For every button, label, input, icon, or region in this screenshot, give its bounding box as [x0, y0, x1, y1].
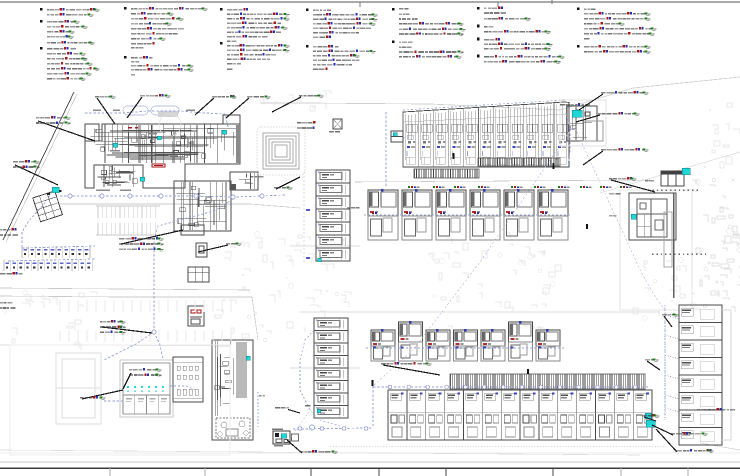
DB terrace east end: [646, 420, 655, 427]
general notes column 4: [306, 8, 378, 70]
general notes column 2: [124, 7, 208, 76]
garage cells and DB dots: [123, 386, 170, 414]
spa feed dashed: [257, 392, 259, 427]
circuit run building A south: [60, 195, 285, 197]
label pool hall: [250, 176, 264, 178]
building A clubhouse outline: [85, 124, 99, 141]
existing landscape texture centre: [215, 232, 351, 343]
label building A roof 2: [127, 94, 171, 118]
label mid spine: [275, 407, 289, 409]
circuit risers apartment stack: [664, 305, 666, 420]
villa south unit 5: [481, 329, 505, 361]
circuit run west parking: [22, 192, 52, 248]
bollard marks: [372, 153, 588, 386]
small kiosk north of wing: [181, 225, 204, 235]
label building D feeder 1: [579, 91, 649, 110]
sheet bottom border: [0, 452, 740, 454]
label building A roof 4: [226, 96, 271, 119]
fence dots building C: [648, 190, 706, 256]
label west parking row: [0, 228, 18, 236]
spa building south: [212, 340, 253, 440]
landscape texture west: [3, 291, 97, 350]
label building C west 1: [609, 193, 621, 195]
parking mid rows faint: [60, 300, 231, 342]
DB in building A: [113, 143, 118, 147]
car port hatch west: [414, 169, 479, 178]
DB south terrace west (substation detail): [273, 431, 290, 444]
blue caption under building D: [560, 103, 590, 106]
long feeder east: [575, 128, 665, 418]
general notes column 5: [392, 8, 466, 59]
label garage 1: [80, 390, 123, 400]
label building D feeder 2: [576, 112, 640, 122]
general notes column 3: [220, 8, 290, 70]
circuit through villa south row: [366, 347, 564, 349]
west store building rotated: [33, 191, 63, 222]
general notes column 1: [40, 8, 100, 81]
villa south unit 7: [536, 329, 560, 361]
car port hatch east: [478, 158, 560, 166]
label building A roof 3: [195, 95, 237, 115]
villa south unit 1: [371, 329, 395, 361]
villa mid circuit tags: [372, 212, 547, 214]
meter kiosk west: [333, 119, 342, 129]
rowhouse block north outline: [403, 102, 569, 167]
terrace car port hatch: [450, 374, 645, 389]
store building with grid: [188, 267, 209, 282]
apartment stack units: [679, 308, 731, 442]
villa mid unit 5: [504, 189, 534, 240]
tennis courts faint: [56, 353, 101, 424]
DB east stack: [645, 413, 651, 419]
label store: [274, 177, 300, 190]
villa south unit 2: [399, 321, 423, 361]
villa mid unit 2: [402, 189, 432, 240]
site boundary west diagonal: [3, 92, 74, 240]
label stack south 2: [656, 429, 714, 453]
canopy bumps on dashed run: [123, 106, 148, 115]
strip S bottom DB: [317, 409, 321, 413]
road north of villa rows: [355, 180, 650, 182]
label stack east 2: [645, 359, 660, 371]
villa mid unit 3: [436, 189, 466, 240]
circuit along rowhouse north: [403, 100, 565, 110]
feed from DB to strip building: [289, 409, 311, 440]
label garage 2: [123, 368, 162, 389]
feeder to substation kiosk: [385, 112, 387, 186]
villa south unit 6: [509, 321, 533, 361]
terrace unit partitions: [388, 390, 652, 440]
label water feature: [272, 95, 324, 113]
node on south spine: [309, 425, 314, 430]
road circuit tags mid: [408, 186, 632, 188]
label annex east: [609, 177, 655, 192]
villa south unit 3: [426, 329, 450, 361]
building A wing south: [174, 181, 231, 231]
label stack east 1: [662, 314, 679, 328]
circuit riser centre: [154, 199, 233, 332]
villa mid unit 4: [470, 189, 500, 240]
centre strip building south: [314, 318, 348, 418]
site boundary north-east: [260, 77, 740, 110]
general notes column 7: [577, 7, 657, 54]
circuit strip building south: [300, 330, 340, 426]
label building A east: [297, 121, 316, 129]
label west lighting: [13, 160, 58, 185]
general notes column 6: [477, 7, 565, 64]
water feature concentric squares: [257, 127, 305, 175]
label building A roof 1: [95, 96, 116, 125]
building B pool hall: [230, 172, 258, 190]
label west boundary upper: [36, 116, 95, 141]
site boundary east diagonal: [600, 152, 740, 193]
villa mid unit 6: [538, 189, 568, 240]
circuit run south spine: [293, 428, 373, 429]
building D north-east with DB: [567, 106, 597, 141]
circuit garage block: [104, 400, 123, 402]
building A room partitions: [138, 125, 140, 163]
existing landscape texture east of centre: [428, 230, 561, 334]
label building C blue: [645, 180, 654, 182]
red annotation inside building A: [152, 164, 165, 167]
circuit run building A north: [85, 111, 228, 127]
label east boundary: [697, 408, 735, 411]
label east feeder: [583, 148, 649, 165]
label west car park stack: [119, 230, 183, 251]
terrace block south outline: [388, 390, 652, 440]
circuit through villa mid row: [364, 214, 570, 216]
parking west rows with circuit labels: [4, 246, 92, 271]
road kerb south of building A: [60, 204, 300, 208]
small cross building: [196, 243, 207, 257]
label stack south 1: [652, 425, 708, 436]
annex east with dark roof edge: [661, 171, 684, 186]
label stack east 3: [642, 414, 660, 421]
substation kiosk west of rowhouse: [391, 131, 403, 142]
label villa south row: [381, 362, 440, 375]
rowhouse north unit partitions: [403, 103, 569, 167]
building C east: [629, 193, 676, 240]
hall building with column grid: [173, 357, 203, 402]
plant room with red equipment: [188, 306, 204, 326]
label west parking south: [0, 272, 22, 275]
label building C west 2: [609, 215, 616, 217]
existing houses east boundary: [691, 178, 740, 313]
parking stalls south of building A: [96, 206, 160, 235]
villa mid unit 1: [368, 189, 398, 240]
road south-west: [0, 345, 230, 346]
garage block south-west: [120, 360, 173, 417]
label tennis stack: [100, 320, 152, 334]
centre strip building north: [316, 170, 350, 261]
DB west: [52, 187, 59, 193]
circuit run terrace: [373, 386, 648, 388]
road kerb mid east-west: [300, 311, 660, 313]
tiny captions building A: [93, 110, 195, 192]
building A north-east notch: [223, 115, 240, 124]
DB at annex: [682, 168, 690, 175]
label plant: [198, 243, 242, 253]
label spine DB: [287, 440, 338, 454]
sheet top border: [0, 2, 740, 3]
villa south unit 4: [454, 329, 478, 361]
long feeder south-west: [373, 128, 572, 386]
label west edge: [0, 302, 15, 309]
apartment stack east outline: [679, 305, 722, 445]
